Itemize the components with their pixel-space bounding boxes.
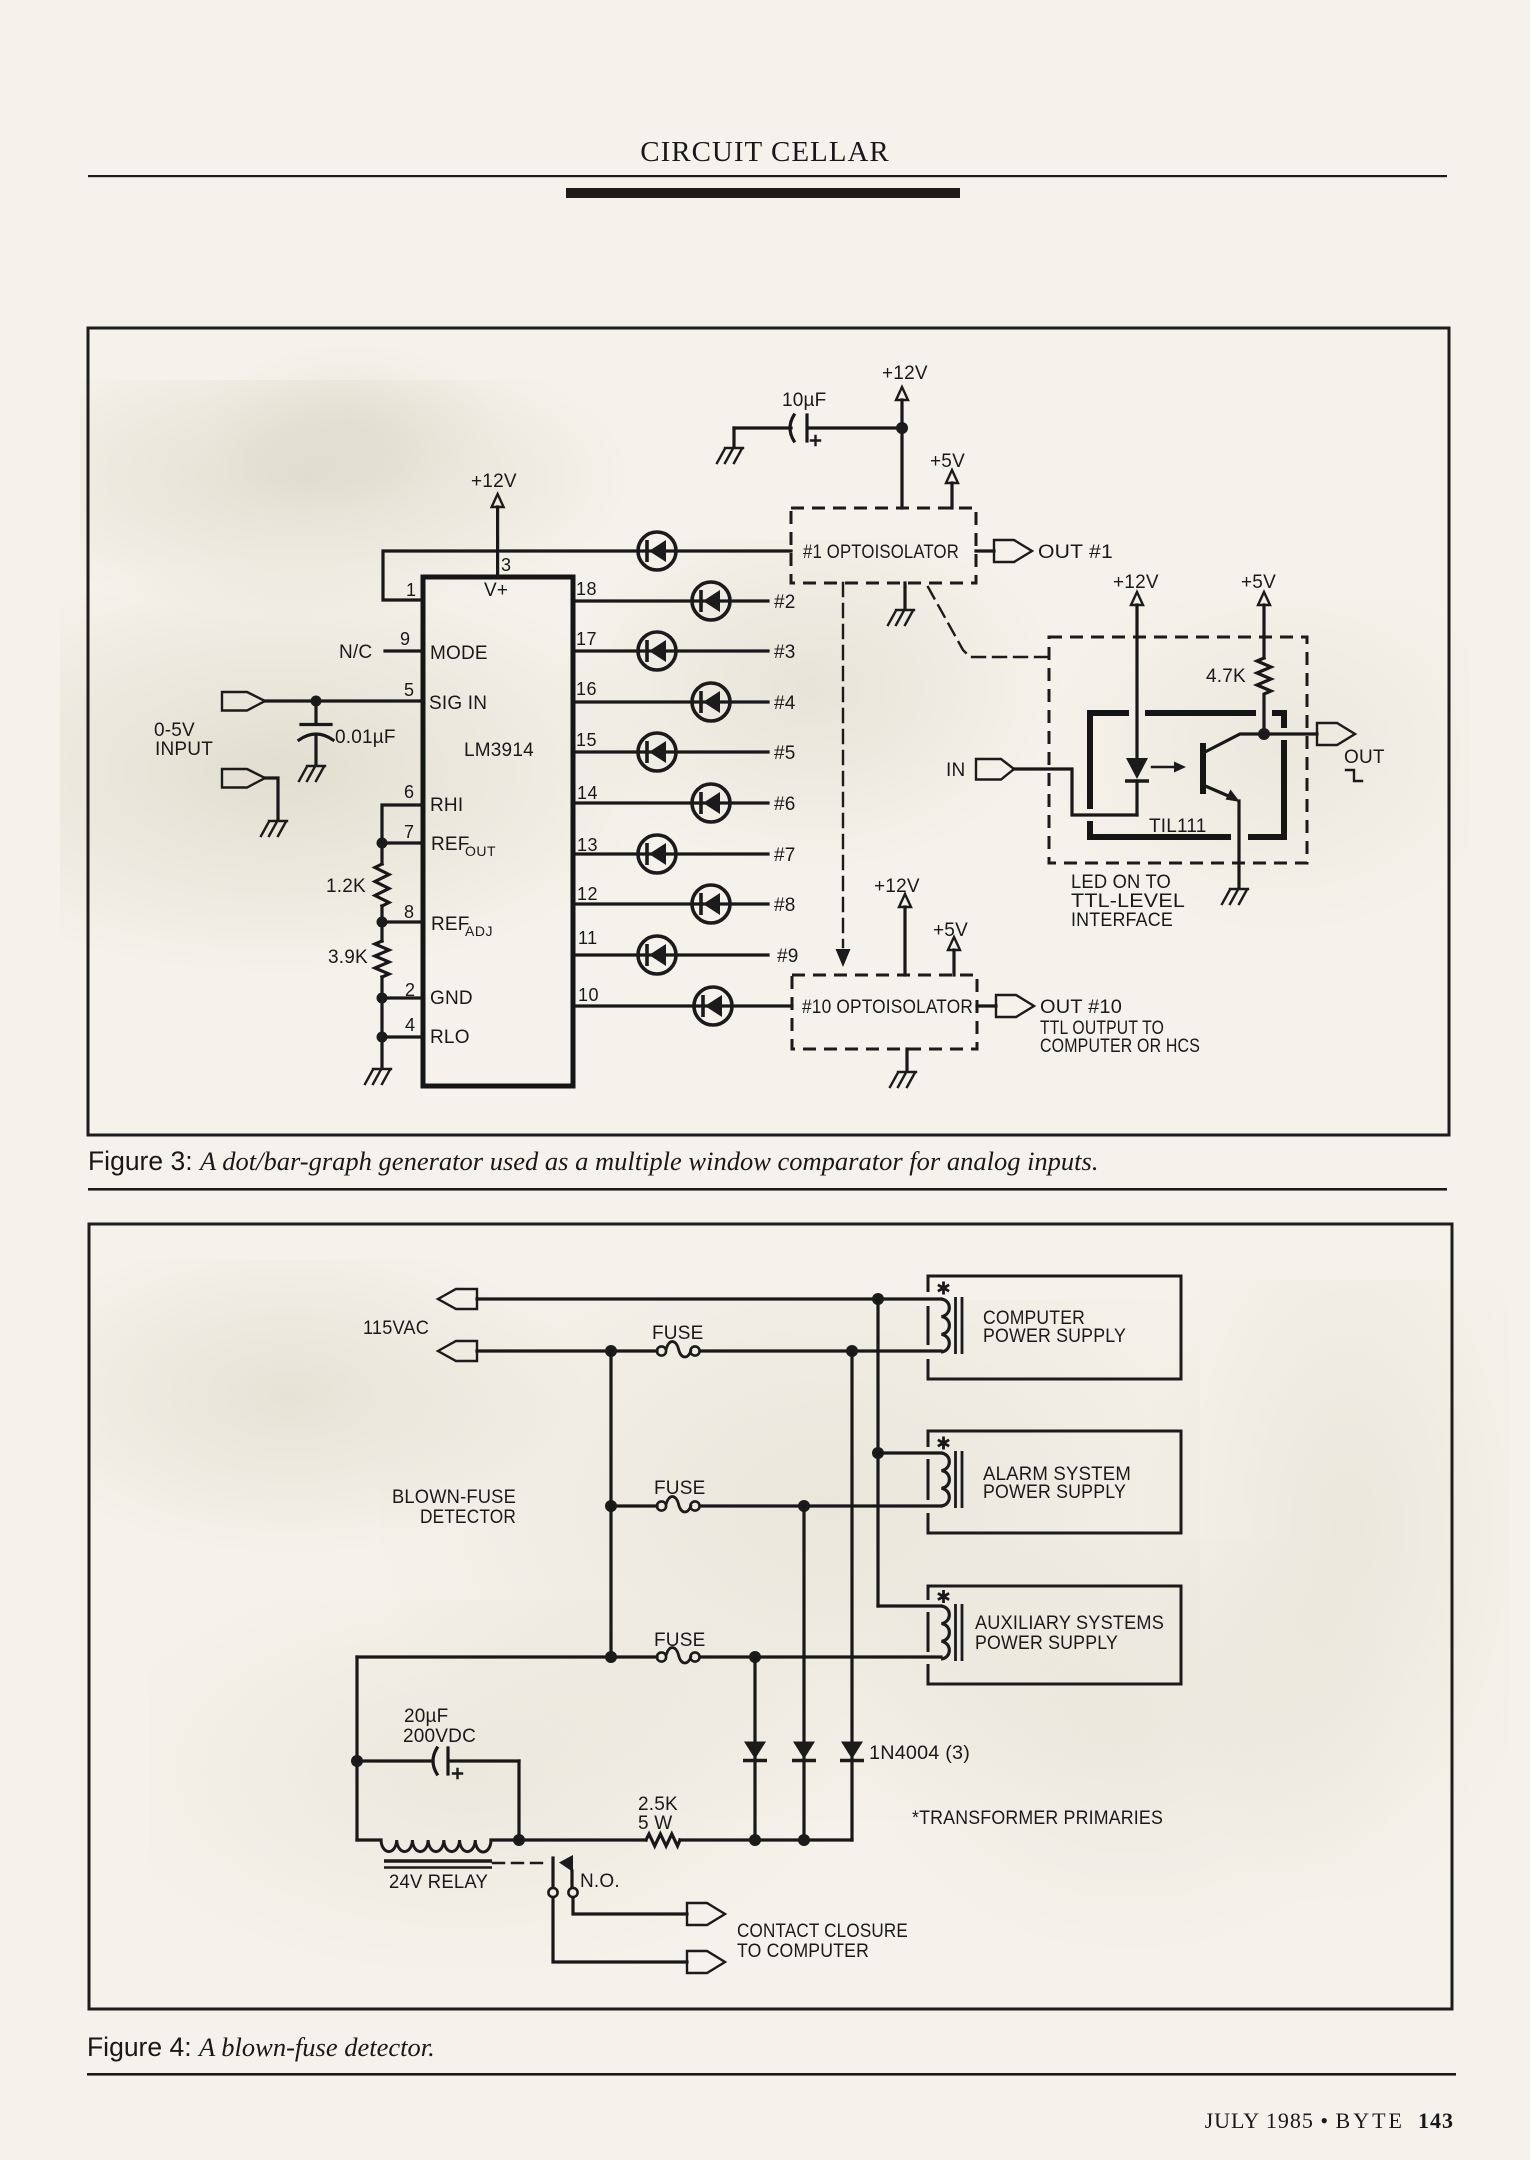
wire pin 18 [573,599,768,602]
pin 12 label [577,884,598,904]
wire drop bus [609,1351,612,1657]
TRANSFORMER PRIMARIES note [912,1808,1163,1829]
RHI pin label [430,795,463,816]
node bottom junction 2 [798,1834,810,1846]
svg-text:#9: #9 [777,946,799,967]
svg-text:REF: REF [431,914,470,935]
figure 3 caption [88,1146,1428,1177]
resistor R2 3.9K [328,941,389,977]
wire N/C to MODE [385,649,423,652]
svg-text:9: 9 [400,629,411,649]
svg-text:200VDC: 200VDC [403,1726,476,1747]
+5V supply arrow (optoisolator 1) [930,451,965,508]
LED D10 [694,987,732,1025]
TIL111 package outline [1090,713,1284,837]
dashed actuator link [493,1862,549,1864]
wire J2 to ground [265,778,278,820]
TIL111 label [1149,816,1207,837]
wire pin 12 [573,902,768,905]
computer power supply box [928,1276,1181,1379]
BLOWN-FUSE DETECTOR label [392,1487,516,1528]
optoisolator U2 #1 box [791,508,976,583]
svg-text:5: 5 [404,680,415,700]
capacitor C2 10uF [734,390,902,445]
svg-text:+12V: +12V [471,471,517,492]
LED D4 [692,683,796,721]
resistor R4 2.5K 5W [638,1794,680,1846]
rule under figure 3 caption [88,1188,1447,1191]
svg-text:2.5K: 2.5K [638,1794,678,1815]
+12V supply arrow (optoisolator 1) [882,363,928,508]
REFOUT pin label [431,834,496,859]
contact closure connector 2 [687,1951,725,1973]
node RLO junction [377,1032,388,1043]
opto LED (TIL111) [1125,758,1149,815]
svg-text:#6: #6 [774,794,796,815]
REFADJ pin label [431,914,493,939]
LED D9 [638,936,799,974]
svg-text:4.7K: 4.7K [1206,666,1246,687]
phototransistor Q1 [1203,734,1317,888]
node line1/branch junction [872,1293,884,1305]
SIG IN pin label [429,693,487,714]
pin 5 label [404,680,415,700]
svg-text:+12V: +12V [874,876,920,897]
svg-text:#1 OPTOISOLATOR: #1 OPTOISOLATOR [803,542,959,563]
node fuse3 diode branch junction [749,1651,761,1663]
svg-text:16: 16 [576,679,597,699]
svg-text:14: 14 [577,783,598,803]
figure 3 frame [88,328,1449,1135]
115VAC label [363,1318,429,1339]
pin 16 label [576,679,597,699]
svg-text:ADJ: ADJ [465,923,493,939]
pin 6 label [404,782,415,802]
pin 11 label [578,928,598,948]
wire pin 8 stub [382,906,423,941]
svg-text:TIL111: TIL111 [1149,816,1207,837]
svg-text:+5V: +5V [933,920,968,941]
+12V supply arrow (optoisolator 10) [874,876,920,975]
wire IN to opto LED [1014,769,1137,815]
0-5V INPUT label [154,720,213,760]
svg-text:5 W: 5 W [638,1813,672,1834]
ground (divider) [365,1069,391,1084]
pin 10 label [578,985,599,1005]
pin 8 label [404,902,415,922]
header thick bar [566,188,960,198]
svg-text:12: 12 [577,884,598,904]
svg-text:MODE: MODE [430,643,488,664]
LED D2 [692,582,796,620]
node C2 junction [896,422,908,434]
auxiliary systems power supply box [928,1586,1181,1684]
wire bottom rail [357,1838,852,1841]
wire pin 11 [573,953,768,956]
svg-text:0-5V: 0-5V [154,720,195,741]
wire pin1 loop to LED #1 [383,551,791,600]
svg-text:24V RELAY: 24V RELAY [389,1872,488,1893]
svg-text:FUSE: FUSE [654,1478,705,1499]
svg-text:LED ON TO: LED ON TO [1071,872,1171,893]
LED D1 [638,532,676,570]
wire pin 4 stub [382,1035,423,1038]
svg-text:#5: #5 [774,743,796,764]
svg-text:IN: IN [946,760,965,781]
capacitor C3 20uF 200VDC [357,1706,519,1778]
IN connector [946,759,1014,781]
OUT #1 connector [976,540,1113,563]
node REFADJ junction [377,917,388,928]
wire cap to bottom [517,1761,520,1840]
resistor R3 4.7K [1206,658,1271,734]
relay switch armature [553,1855,573,1887]
svg-text:POWER SUPPLY: POWER SUPPLY [983,1326,1126,1347]
wire fuse3 line [357,1655,941,1658]
svg-text:FUSE: FUSE [652,1323,703,1344]
wire pin 10 to optoisolator 10 [573,1004,792,1007]
wire branch bus [876,1299,879,1606]
svg-text:TTL-LEVEL: TTL-LEVEL [1071,891,1185,912]
footer [0,2108,1454,2134]
node cap/bottom junction [513,1834,525,1846]
fuse F3 [654,1630,705,1663]
svg-text:+12V: +12V [1113,572,1159,593]
115VAC connector bottom [438,1341,477,1361]
pin 4 label [405,1015,416,1035]
wire pin 17 [573,649,768,652]
switch contact left [548,1888,557,1897]
wire 115VAC line 2 [477,1349,941,1352]
wire diode branch 3 [850,1351,853,1840]
dashed wire optoisolator chain [836,583,851,967]
svg-text:SIG IN: SIG IN [429,693,487,714]
wire J1 to SIG IN [265,699,423,702]
wire pin 13 [573,852,768,855]
+12V supply arrow (IC pin 3) [471,471,517,577]
figure 4 caption [87,2032,1427,2063]
wire armature to connector [553,1898,687,1963]
svg-text:#3: #3 [774,642,796,663]
faint scan bleed-through stains [80,380,640,620]
pin 17 label [576,629,597,649]
svg-text:POWER SUPPLY: POWER SUPPLY [975,1633,1118,1654]
light arrow [1152,762,1186,773]
ground (emitter) [1222,889,1248,904]
wire pin 15 [573,750,768,753]
pin 18 label [576,579,597,599]
svg-text:10: 10 [578,985,599,1005]
IC U1 LM3914 [423,577,573,1086]
svg-text:1.2K: 1.2K [326,876,366,897]
svg-text:6: 6 [404,782,415,802]
svg-text:3.9K: 3.9K [328,947,368,968]
wire NO contact to connector [573,1898,687,1915]
svg-text:7: 7 [404,822,415,842]
ground (J2) [261,821,287,836]
pin 3 label [501,555,512,575]
relay K1 core [384,1861,492,1868]
pin 13 label [577,835,598,855]
transformer T1 primary [938,1282,962,1355]
node collector junction [1258,728,1270,740]
fuse F2 [654,1478,705,1512]
diode D12 [792,1742,816,1761]
svg-text:4: 4 [405,1015,416,1035]
svg-text:115VAC: 115VAC [363,1318,429,1339]
header: CIRCUIT CELLAR [0,136,1530,169]
svg-text:V+: V+ [484,580,508,601]
pin 7 label [404,822,415,842]
svg-text:CONTACT CLOSURE: CONTACT CLOSURE [737,1921,908,1942]
pin 2 label [405,980,416,1000]
svg-text:3: 3 [501,555,512,575]
optoisolator U3 #10 box [792,975,977,1049]
TIL111 dashed enclosure [1049,637,1307,863]
dashed zoom link to TIL111 [928,587,1049,657]
figure 4 frame [89,1224,1452,2009]
N/C label [339,642,372,663]
svg-text:+5V: +5V [930,451,965,472]
IC U1 label LM3914 [464,740,534,761]
node fuse3 left junction [605,1651,617,1663]
svg-text:11: 11 [578,928,598,948]
rule under figure 4 caption [87,2073,1456,2076]
wire left loop [355,1657,358,1840]
wire pin 2 stub [382,977,423,1068]
N.O. label [580,1871,620,1892]
contact closure connector 1 [687,1903,725,1925]
24V RELAY label [389,1872,488,1893]
svg-text:17: 17 [576,629,597,649]
LED D7 [638,835,796,873]
115VAC connector top [438,1289,477,1309]
svg-text:INPUT: INPUT [155,739,213,760]
LED D3 [638,632,796,670]
svg-text:#10 OPTOISOLATOR: #10 OPTOISOLATOR [802,997,973,1018]
svg-text:8: 8 [404,902,415,922]
ground (C1) [299,766,325,781]
svg-text:*TRANSFORMER PRIMARIES: *TRANSFORMER PRIMARIES [912,1808,1163,1829]
svg-text:13: 13 [577,835,598,855]
svg-text:COMPUTER OR HCS: COMPUTER OR HCS [1040,1036,1200,1057]
svg-text:1: 1 [406,580,417,600]
svg-text:N/C: N/C [339,642,372,663]
diode D13 [840,1742,864,1761]
node SIG IN junction [311,696,322,707]
pin 1 label [406,580,417,600]
CONTACT CLOSURE TO COMPUTER label [737,1921,908,1962]
svg-text:#2: #2 [774,592,796,613]
wire 115VAC line 1 [477,1297,941,1300]
OUT connector (TIL111) [1317,723,1385,781]
svg-text:OUT #10: OUT #10 [1040,997,1122,1018]
svg-text:LM3914: LM3914 [464,740,534,761]
node line2/diode branch junction [846,1345,858,1357]
wire pin 7 stub [382,841,423,844]
LED D8 [692,885,796,923]
svg-text:+5V: +5V [1241,572,1276,593]
wire fuse2 line [611,1504,941,1507]
diode D11 [743,1742,767,1761]
svg-text:DETECTOR: DETECTOR [420,1507,516,1528]
resistor R1 1.2K [326,864,389,906]
ground (optoisolator 10) [890,1049,916,1087]
ground (optoisolator 1) [888,583,914,625]
svg-text:FUSE: FUSE [654,1630,705,1651]
wire pin 16 [573,700,768,703]
LED ON TO TTL-LEVEL INTERFACE label [1071,872,1185,931]
svg-text:OUT #1: OUT #1 [1038,542,1113,563]
svg-text:18: 18 [576,579,597,599]
wire aux primary top [878,1604,941,1607]
LED D6 [692,784,796,822]
GND pin label [430,988,473,1009]
svg-text:+12V: +12V [882,363,928,384]
pin 9 label [400,629,411,649]
svg-text:REF: REF [431,834,470,855]
node fuse2 left junction [605,1500,617,1512]
switch contact right [568,1888,577,1897]
svg-text:0.01µF: 0.01µF [335,727,396,748]
pin 14 label [577,783,598,803]
node alarm branch junction [872,1447,884,1459]
+12V supply arrow (TIL111) [1113,572,1159,758]
pin 15 label [576,730,597,750]
alarm system power supply box [928,1431,1181,1533]
transformer T3 primary [938,1590,962,1661]
node GND junction [377,993,388,1004]
pin 3 V+ label [484,580,508,601]
svg-text:POWER SUPPLY: POWER SUPPLY [983,1482,1126,1503]
svg-text:TO COMPUTER: TO COMPUTER [737,1941,869,1962]
input connector J2 [222,769,265,788]
relay K1 coil [381,1840,491,1852]
svg-text:RLO: RLO [430,1027,470,1048]
+5V supply arrow (optoisolator 10) [933,920,968,975]
input connector J1 [222,692,265,711]
OUT #10 connector [977,995,1200,1057]
wire alarm primary top [878,1451,941,1454]
wire diode branch 1 [753,1657,756,1840]
svg-text:RHI: RHI [430,795,463,816]
svg-text:AUXILIARY SYSTEMS: AUXILIARY SYSTEMS [975,1613,1164,1634]
1N4004 label [869,1743,970,1764]
svg-text:#4: #4 [774,693,796,714]
LED D5 [638,733,796,771]
ground (C2) [717,428,743,463]
svg-text:#7: #7 [774,845,796,866]
node line2/drop junction [605,1345,617,1357]
svg-text:GND: GND [430,988,473,1009]
header rule [88,175,1447,177]
svg-text:N.O.: N.O. [580,1871,620,1892]
node fuse2 diode branch junction [798,1500,810,1512]
transformer T2 primary [938,1437,962,1509]
wire RHI to divider [382,805,423,864]
node cap branch junction [351,1755,363,1767]
svg-text:20µF: 20µF [404,1706,449,1727]
MODE pin label [430,643,488,664]
svg-text:#8: #8 [774,895,796,916]
wire pin 14 [573,801,768,804]
capacitor C1 0.01uF [299,701,396,765]
svg-text:1N4004 (3): 1N4004 (3) [869,1743,970,1764]
svg-text:OUT: OUT [465,843,496,859]
svg-text:BLOWN-FUSE: BLOWN-FUSE [392,1487,516,1508]
svg-text:OUT: OUT [1344,747,1385,768]
svg-text:10µF: 10µF [782,390,827,411]
node REFOUT junction [377,838,388,849]
RLO pin label [430,1027,470,1048]
fuse F1 [652,1323,703,1357]
wire diode branch 2 [802,1506,805,1840]
svg-text:15: 15 [576,730,597,750]
node bottom junction 1 [749,1834,761,1846]
svg-text:INTERFACE: INTERFACE [1071,910,1173,931]
+5V supply arrow (TIL111) [1241,572,1276,658]
